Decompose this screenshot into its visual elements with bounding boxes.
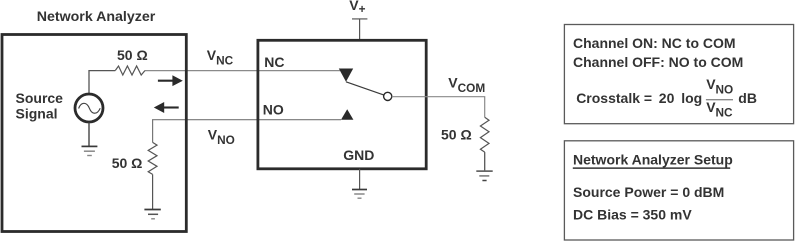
svg-text:NC: NC [264,54,284,70]
ground: below source V1 [82,146,98,155]
svg-text:Channel ON: NC to COM: Channel ON: NC to COM [573,35,736,51]
resistor R3 50 ohm (COM termination) [480,117,489,152]
switch pole circle [384,92,392,100]
svg-text:DC Bias = 350 mV: DC Bias = 350 mV [573,206,692,222]
svg-text:Source: Source [16,90,64,106]
svg-text:VCOM: VCOM [448,75,485,95]
resistor R1 50 ohm (series NC) [115,66,145,75]
svg-text:Source Power = 0 dBM: Source Power = 0 dBM [573,184,724,200]
Network Analyzer enclosure box [2,35,186,232]
annotation box: network analyzer setup [564,141,793,240]
svg-text:VNC: VNC [207,47,234,67]
wire: NC net from resistor R1 to switch NC pin [145,70,340,72]
switch pole arm (closed to NC) [346,82,384,95]
svg-text:GND: GND [343,147,374,163]
svg-text:50 Ω: 50 Ω [117,47,148,63]
svg-text:Network Analyzer: Network Analyzer [37,9,156,25]
wire: R3 bottom to ground [484,152,486,171]
svg-text:NO: NO [263,101,284,117]
wire: source bottom to ground [88,123,90,147]
svg-text:Channel OFF: NO to COM: Channel OFF: NO to COM [573,54,743,70]
wire: source top to NC resistor lead [89,71,115,94]
wire: COM net from pole to R3 [392,97,485,118]
ground: below switch U1 [352,190,367,199]
wire: NO net from resistor R2 top to switch NO pin [153,120,341,143]
ground: below R2 [144,210,160,219]
source V1: AC source circle [75,94,103,122]
equation fraction bar [706,99,733,101]
sine wave inside source [79,103,101,113]
svg-text:Crosstalk =: Crosstalk = [576,90,652,106]
svg-text:Signal: Signal [16,106,58,122]
resistor R2 50 ohm (NO termination) [148,142,157,174]
switch NC contact triangle [339,69,353,82]
svg-text:dB: dB [738,90,757,106]
svg-text:log: log [681,90,702,106]
svg-text:20: 20 [659,90,675,106]
arrow: crosstalk direction out of NO [154,102,179,113]
wire: R2 bottom to ground [152,174,154,209]
arrow: signal direction into NC [158,75,183,86]
ground: below R3 [476,171,492,180]
svg-text:VNO: VNO [706,76,733,96]
svg-text:50 Ω: 50 Ω [441,127,472,143]
svg-text:VNC: VNC [706,99,733,119]
switch U1 enclosure box [258,40,426,169]
switch NO contact triangle [341,109,353,119]
svg-text:Network Analyzer Setup: Network Analyzer Setup [573,151,733,167]
wire: switch GND pin to ground [359,169,361,190]
wire: V+ to switch box [359,19,361,40]
svg-text:50 Ω: 50 Ω [112,155,143,171]
svg-text:V+: V+ [349,0,365,16]
annotation box: channel definitions [564,25,793,124]
svg-text:VNO: VNO [208,127,235,147]
power V+ terminal bar [352,18,367,20]
